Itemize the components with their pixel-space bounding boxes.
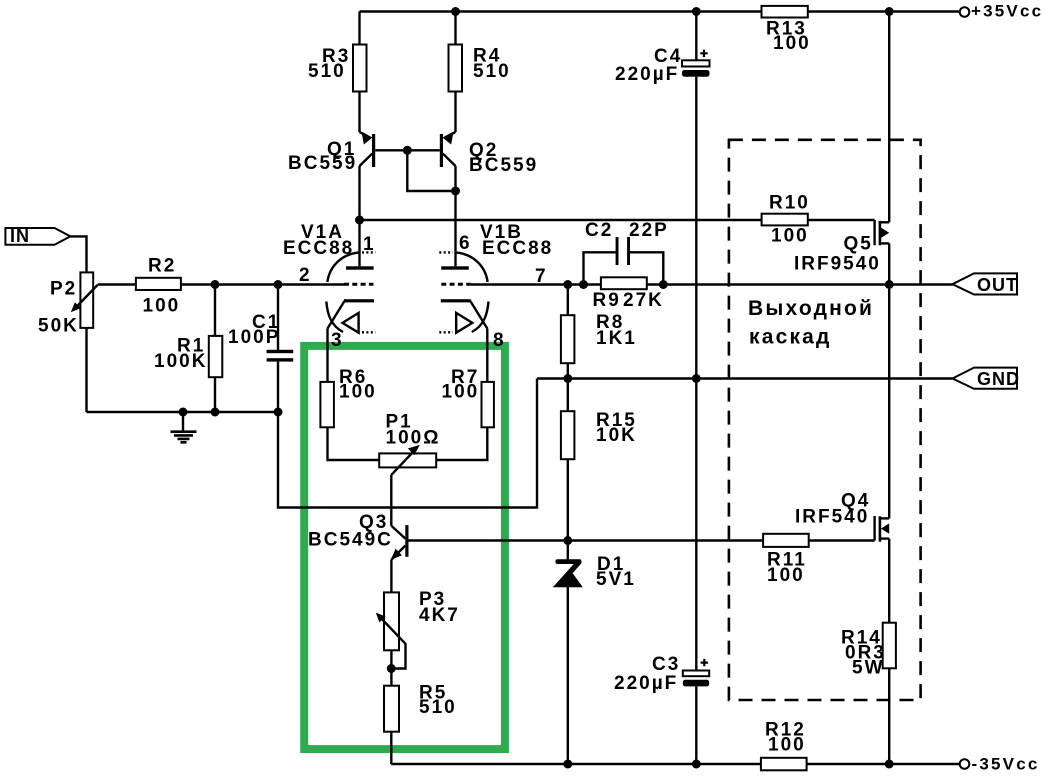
svg-text:100K: 100K xyxy=(154,351,207,372)
potentiometer P3 xyxy=(376,592,406,668)
wire R4 top lead xyxy=(454,12,456,45)
resistor R5 xyxy=(384,686,399,732)
wire R4 to Q2 emitter xyxy=(454,92,456,133)
wire P3 to R5 xyxy=(390,650,392,685)
svg-text:100: 100 xyxy=(767,565,805,586)
svg-text:27K: 27K xyxy=(623,290,664,311)
wire plate line to R10 xyxy=(360,219,763,221)
wire IN to P2 top xyxy=(70,236,86,272)
connector flag IN xyxy=(5,228,70,245)
svg-text:-35Vcc: -35Vcc xyxy=(972,755,1040,774)
svg-text:8: 8 xyxy=(493,330,506,351)
svg-text:2: 2 xyxy=(299,265,312,286)
ground symbol xyxy=(171,412,197,442)
resistor R4 xyxy=(449,45,463,92)
svg-text:22P: 22P xyxy=(629,220,669,241)
capacitor C2 xyxy=(616,237,630,265)
connector flag GND xyxy=(953,368,1018,389)
potentiometer P2 xyxy=(71,272,98,328)
svg-text:100: 100 xyxy=(771,226,809,247)
capacitor C1 xyxy=(267,350,294,362)
wire +35V top rail right segment xyxy=(808,10,961,12)
wire base-collector tie of Q2 xyxy=(407,150,455,191)
svg-text:Q5: Q5 xyxy=(844,234,873,255)
svg-text:510: 510 xyxy=(308,61,346,82)
wire GND line to C3 xyxy=(695,379,697,671)
wire C3 to -35 rail xyxy=(695,686,697,764)
junction C3 / -35 rail xyxy=(692,760,701,769)
junction Q5 source / +35 rail xyxy=(885,7,894,16)
wire R15 bottom to gate bias line xyxy=(567,459,569,560)
svg-text:5V1: 5V1 xyxy=(596,569,636,590)
junction Q1-Q2 bases xyxy=(403,146,412,155)
transistor Q3 xyxy=(391,525,409,560)
resistor R3 xyxy=(353,45,367,92)
svg-text:BC559: BC559 xyxy=(288,153,357,174)
mosfet Q4 xyxy=(875,516,890,542)
wire R11 to Q4 gate xyxy=(809,539,875,541)
wire ground return path xyxy=(278,379,537,508)
junction C4-C3 / GND line xyxy=(692,374,701,383)
svg-text:+35Vcc: +35Vcc xyxy=(971,2,1043,21)
wire V1B cathode pin 8 to R7 xyxy=(486,329,488,382)
junction C2 left / feedback line xyxy=(579,280,588,289)
dashed box output stage xyxy=(729,140,921,700)
wire R3 to Q1 emitter xyxy=(358,92,360,133)
wire V1B grid pin 7 to OUT xyxy=(471,283,953,285)
junction Q1 collector / plate line xyxy=(355,216,364,225)
svg-text:OUT: OUT xyxy=(977,275,1018,295)
svg-text:100: 100 xyxy=(143,296,181,317)
junction C4 / +35 rail xyxy=(692,7,701,16)
junction R4 / +35 rail xyxy=(451,7,460,16)
svg-text:IRF540: IRF540 xyxy=(795,507,869,528)
wire R2 to V1A grid pin 2 xyxy=(181,283,344,285)
svg-text:50K: 50K xyxy=(38,316,79,337)
svg-text:C2: C2 xyxy=(585,220,613,241)
wire R5 to -35 rail xyxy=(390,732,392,764)
resistor R2 xyxy=(136,278,181,290)
wire V1A plate pin 1 xyxy=(358,220,360,266)
resistor R14 xyxy=(883,623,896,669)
svg-text:510: 510 xyxy=(419,697,457,718)
wire R10 to Q5 gate xyxy=(808,219,875,221)
junction C1 / ground line xyxy=(274,408,283,417)
zener diode D1 xyxy=(553,559,583,587)
junction D1 / -35 rail xyxy=(563,760,572,769)
wire R8 top lead xyxy=(567,285,569,316)
svg-text:100: 100 xyxy=(442,382,480,403)
wire D1 anode to -35 rail xyxy=(567,587,569,764)
resistor R7 xyxy=(482,382,494,427)
svg-text:4K7: 4K7 xyxy=(419,605,460,626)
svg-text:220µF: 220µF xyxy=(614,673,678,694)
resistor R13 xyxy=(762,6,808,18)
svg-text:каскад: каскад xyxy=(749,326,832,349)
wire Q4 source to R14 xyxy=(888,539,890,623)
wire OUT node down to Q4 drain xyxy=(888,285,890,519)
wire Q2 collector down to V1B plate pin 6 xyxy=(454,166,456,266)
svg-text:BC549C: BC549C xyxy=(308,530,393,551)
resistor R6 xyxy=(320,382,334,427)
wire Q1 base to Q2 base xyxy=(375,149,440,151)
wire R1 branch xyxy=(214,285,216,413)
wire input grid line P2 wiper to R2 xyxy=(98,283,136,285)
wire Q5 source to +35 rail xyxy=(888,12,890,223)
resistor R8 xyxy=(561,315,575,363)
svg-text:10K: 10K xyxy=(596,425,637,446)
svg-text:IRF9540: IRF9540 xyxy=(794,254,881,275)
svg-text:3: 3 xyxy=(331,330,344,351)
transistor Q2 xyxy=(440,132,456,168)
svg-text:7: 7 xyxy=(535,266,548,287)
terminal +35Vcc xyxy=(960,7,970,17)
svg-text:6: 6 xyxy=(459,233,472,254)
svg-text:R2: R2 xyxy=(148,256,176,277)
wire Q1 collector down to plate node xyxy=(358,166,360,220)
junction base tie / Q2 collector xyxy=(451,187,460,196)
svg-text:1K1: 1K1 xyxy=(596,328,637,349)
svg-text:Выходной: Выходной xyxy=(748,297,874,320)
junction D1 / gate bias line xyxy=(563,536,572,545)
wire Q4 source lead xyxy=(881,537,889,539)
wire R8 bottom to GND line xyxy=(567,363,569,411)
junction P3 wiper return xyxy=(387,664,396,673)
wire C4 bottom to GND line xyxy=(695,77,697,379)
triode V1B xyxy=(439,252,488,332)
green highlight box xyxy=(304,346,505,749)
resistor R10 xyxy=(762,214,808,226)
wire R14 to -35 rail xyxy=(888,668,890,764)
potentiometer P1 xyxy=(379,445,436,475)
svg-text:BC559: BC559 xyxy=(469,155,538,176)
svg-text:ECC88: ECC88 xyxy=(482,238,553,259)
svg-text:1: 1 xyxy=(363,234,376,255)
junction C2 right / feedback line xyxy=(659,280,668,289)
transistor Q1 xyxy=(360,132,376,168)
svg-text:C3: C3 xyxy=(652,654,680,675)
wire -35V bottom rail xyxy=(391,763,960,765)
wire +35V top rail left segment xyxy=(360,10,762,12)
svg-text:P2: P2 xyxy=(50,279,77,300)
junction R1 / grid line xyxy=(211,280,220,289)
terminal -35Vcc xyxy=(960,759,970,769)
wire R6 bottom to P1 xyxy=(328,427,380,460)
svg-text:220µF: 220µF xyxy=(615,64,679,85)
wire Q4 drain lead xyxy=(881,517,889,519)
svg-text:R10: R10 xyxy=(769,193,810,214)
svg-text:GND: GND xyxy=(977,369,1020,389)
wire Q3 base line to R11 xyxy=(409,539,764,541)
wire C2 branch xyxy=(584,252,664,284)
capacitor C4 xyxy=(682,50,710,77)
triode V1A xyxy=(326,252,375,332)
resistor R1 xyxy=(209,336,223,377)
svg-text:100: 100 xyxy=(768,735,806,756)
svg-text:510: 510 xyxy=(473,61,511,82)
svg-text:100Ω: 100Ω xyxy=(386,428,441,449)
wire Q3 emitter to P3 xyxy=(390,560,392,593)
resistor R15 xyxy=(561,411,575,459)
junction ground symbol xyxy=(179,408,188,417)
junction R8 / feedback line xyxy=(563,280,572,289)
svg-text:R9: R9 xyxy=(593,290,621,311)
wire signal ground line xyxy=(87,411,279,413)
svg-text:ECC88: ECC88 xyxy=(283,238,354,259)
svg-text:5W: 5W xyxy=(852,658,885,679)
junction R14 / -35 rail xyxy=(885,760,894,769)
junction R1 / ground line xyxy=(211,408,220,417)
resistor R11 xyxy=(763,534,809,547)
junction C1 / grid line xyxy=(274,280,283,289)
wire Q5 source lead xyxy=(881,221,889,223)
junction OUT node xyxy=(885,280,894,289)
wire V1A cathode pin 3 to R6 xyxy=(326,329,328,382)
wire P2 bottom to ground xyxy=(85,328,87,412)
svg-text:100: 100 xyxy=(339,382,377,403)
mosfet Q5 xyxy=(875,220,890,245)
connector flag OUT xyxy=(953,273,1018,294)
wire C1 branch xyxy=(277,285,279,413)
resistor R12 xyxy=(761,758,807,771)
junction R8-R15 / GND line xyxy=(563,374,572,383)
wire P1 wiper to Q3 xyxy=(390,475,392,526)
svg-text:100P: 100P xyxy=(228,327,280,348)
svg-text:100: 100 xyxy=(773,33,811,54)
capacitor C3 xyxy=(683,659,709,686)
wire Q5 drain lead xyxy=(881,242,889,244)
wire GND line xyxy=(537,377,953,379)
resistor R9 xyxy=(601,277,647,289)
wire R7 bottom to P1 xyxy=(436,427,487,460)
wire Q5 drain to OUT node xyxy=(888,243,890,284)
svg-text:IN: IN xyxy=(10,226,30,246)
wire R3 top lead xyxy=(358,12,360,45)
wire C4 top lead xyxy=(695,12,697,61)
